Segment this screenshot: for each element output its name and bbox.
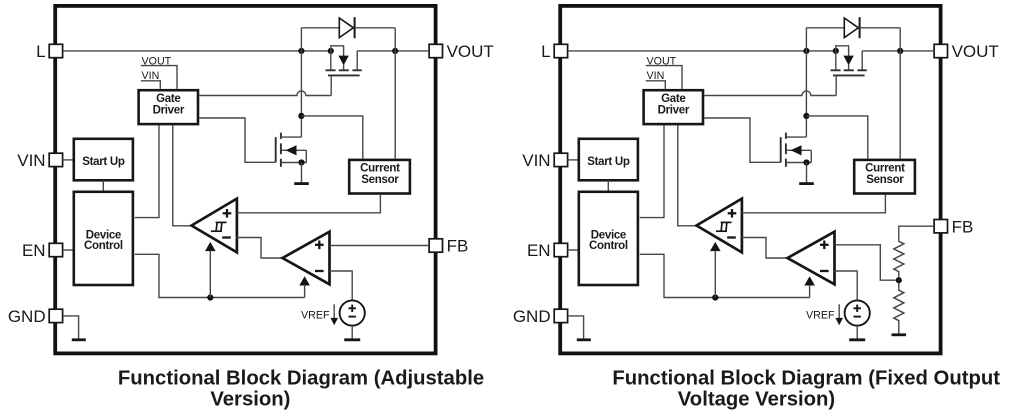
- transistor Q1 channel contacts: [831, 69, 841, 71]
- transistor Q1 gate plate: [833, 74, 865, 76]
- wire EN pin to device control: [63, 249, 73, 251]
- pin L: [554, 44, 567, 57]
- ground Q2 source: [301, 163, 303, 184]
- wire device control to gate driver: [640, 125, 664, 217]
- wire GND pin: [63, 316, 79, 339]
- transistor Q2 body lead: [282, 149, 307, 151]
- wire device control bias line: [640, 254, 810, 297]
- wire current sensor to U2 plus: [237, 195, 381, 213]
- svg-text:Gate: Gate: [661, 93, 685, 105]
- ground divider: [898, 323, 900, 335]
- ground GND pin: [577, 338, 591, 341]
- outer box (right diagram): [560, 6, 940, 354]
- diode D1: [339, 18, 353, 38]
- svg-text:VIN: VIN: [142, 70, 160, 82]
- pin VOUT: [934, 44, 947, 57]
- transistor Q1 body lead: [331, 46, 344, 56]
- arrow bias into U3: [804, 276, 815, 285]
- svg-text:EN: EN: [22, 241, 46, 260]
- svg-text:Gate: Gate: [156, 93, 180, 105]
- wire diode anode: [301, 27, 339, 29]
- svg-text:VIN: VIN: [522, 151, 550, 170]
- wire diode cathode: [860, 27, 901, 29]
- svg-text:FB: FB: [952, 217, 974, 236]
- wire U3 minus to VREF: [330, 271, 353, 300]
- U2 minus sign: [727, 236, 736, 238]
- svg-text:Functional Block Diagram (Adju: Functional Block Diagram (Adjustable: [118, 368, 484, 390]
- resistor R1: [894, 239, 904, 273]
- transistor Q1 gate lead: [330, 75, 332, 95]
- wire device control to gate driver: [135, 125, 159, 217]
- block Device Control: [579, 192, 638, 285]
- wire diode anode: [806, 27, 844, 29]
- wire diode branch left: [300, 28, 302, 51]
- transistor Q1 source leg: [835, 51, 837, 70]
- U3 minus sign: [315, 270, 324, 272]
- svg-text:Version): Version): [210, 388, 290, 410]
- svg-text:Sensor: Sensor: [361, 174, 399, 186]
- arrow bias into U3: [299, 276, 310, 285]
- wire FB pin to divider: [899, 226, 934, 239]
- pin VIN: [554, 153, 567, 166]
- svg-text:VREF: VREF: [806, 309, 835, 321]
- wire VOUT node to current sensor: [899, 51, 901, 159]
- arrow VREF direction: [838, 304, 840, 319]
- svg-text:Current: Current: [865, 163, 905, 175]
- wire diode branch right: [394, 28, 396, 51]
- pin EN: [554, 243, 567, 256]
- U3 minus sign: [820, 270, 829, 272]
- wire R1 to R2: [898, 274, 900, 289]
- wire comparator to gate driver: [678, 125, 697, 225]
- pin L: [49, 44, 62, 57]
- node diode left: [298, 48, 304, 54]
- node bias branch: [712, 294, 718, 300]
- U2 plus sign: [728, 212, 737, 214]
- transistor Q2 body lead: [787, 149, 812, 151]
- transistor Q1 drain leg: [356, 51, 358, 70]
- node VOUT branch: [897, 48, 903, 54]
- wire start up to device control: [607, 180, 609, 192]
- U2 hysteresis symbol: [211, 230, 222, 232]
- svg-text:Driver: Driver: [153, 104, 185, 116]
- U2 minus sign: [222, 236, 231, 238]
- block Start Up: [74, 139, 133, 181]
- pin GND: [49, 309, 62, 322]
- wire diode branch right: [899, 28, 901, 51]
- U3 plus sign: [820, 244, 829, 246]
- svg-text:Sensor: Sensor: [866, 174, 904, 186]
- pin GND: [554, 309, 567, 322]
- wire current sensor to U2 plus: [742, 195, 886, 213]
- transistor Q2 source lead: [281, 162, 306, 164]
- node diode left: [803, 48, 809, 54]
- wire VOUT input: [141, 66, 177, 89]
- block Current Sensor: [349, 160, 410, 194]
- wire VIN pin to start up: [568, 159, 578, 161]
- diode D1: [844, 18, 858, 38]
- op-amp U3 (error comparator): [283, 232, 330, 285]
- wire VOUT input: [646, 66, 682, 89]
- wire U3 plus to FB pin: [330, 245, 430, 247]
- block Device Control: [74, 192, 133, 285]
- transistor Q1 gate lead: [835, 75, 837, 95]
- op-amp U3 (error comparator): [788, 232, 835, 285]
- transistor Q1 body arrow: [843, 56, 853, 66]
- node Q2 source: [803, 159, 809, 165]
- svg-text:GND: GND: [8, 307, 46, 326]
- svg-text:Control: Control: [84, 240, 123, 252]
- wire Q1 to VOUT: [862, 50, 934, 52]
- block Gate Driver: [139, 90, 198, 124]
- wire tap to current sensor: [301, 116, 362, 159]
- transistor Q2 source lead: [786, 162, 811, 164]
- op-amp U2 (hysteresis comparator): [192, 199, 237, 253]
- node current sensor tap: [298, 113, 304, 119]
- block Current Sensor: [854, 160, 915, 194]
- wire diode branch left: [805, 28, 807, 51]
- ground VREF: [351, 326, 353, 340]
- svg-text:Functional Block Diagram (Fixe: Functional Block Diagram (Fixed Output: [612, 368, 1000, 390]
- svg-text:VIN: VIN: [17, 151, 45, 170]
- ground GND pin: [72, 338, 86, 341]
- svg-text:Start Up: Start Up: [82, 156, 125, 168]
- block Gate Driver: [644, 90, 703, 124]
- wire U2 minus to U3 output: [237, 238, 283, 259]
- svg-text:VOUT: VOUT: [447, 42, 494, 61]
- svg-text:GND: GND: [513, 307, 551, 326]
- svg-text:Voltage Version): Voltage Version): [678, 388, 835, 410]
- ground VREF: [856, 326, 858, 340]
- wire VOUT node to current sensor: [394, 51, 396, 159]
- svg-text:VIN: VIN: [647, 70, 665, 82]
- transistor Q1 body arrow: [338, 56, 348, 66]
- node current sensor tap: [803, 113, 809, 119]
- pin VIN: [49, 153, 62, 166]
- transistor Q2 body arrow: [286, 145, 297, 155]
- wire diode cathode: [355, 27, 396, 29]
- op-amp U2 (hysteresis comparator): [697, 199, 742, 253]
- transistor Q1 source leg: [330, 51, 332, 70]
- transistor Q2 body arrow: [791, 145, 802, 155]
- ground Q2 source: [806, 163, 808, 184]
- resistor R2: [894, 288, 904, 322]
- transistor Q2 channel: [280, 133, 282, 139]
- wire EN pin to device control: [568, 249, 578, 251]
- svg-text:Current: Current: [360, 163, 400, 175]
- wire U3 plus to divider tap: [835, 245, 899, 280]
- outer box (left diagram): [55, 6, 435, 354]
- svg-text:L: L: [541, 42, 550, 61]
- wire L to Q1: [63, 50, 331, 52]
- wire Q1 to VOUT: [357, 50, 429, 52]
- wire VIN pin to start up: [63, 159, 73, 161]
- svg-text:L: L: [36, 42, 45, 61]
- U2 plus sign: [223, 212, 232, 214]
- wire GND pin: [568, 316, 584, 339]
- node divider tap: [896, 277, 902, 283]
- pin EN: [49, 243, 62, 256]
- U2 hysteresis symbol: [716, 230, 727, 232]
- svg-text:FB: FB: [447, 237, 469, 256]
- svg-text:Control: Control: [589, 240, 628, 252]
- wire U3 minus to VREF: [835, 271, 858, 300]
- node VOUT branch: [392, 48, 398, 54]
- wire comparator to gate driver: [173, 125, 192, 225]
- voltage source VREF: [845, 300, 870, 325]
- arrow bias into U2: [205, 242, 216, 251]
- wire device control bias line: [135, 254, 305, 297]
- wire tap to current sensor: [806, 116, 867, 159]
- svg-text:VREF: VREF: [301, 309, 330, 321]
- transistor Q1 body lead: [836, 46, 849, 56]
- transistor Q1 drain leg: [861, 51, 863, 70]
- transistor Q2 drain lead: [281, 136, 302, 138]
- wire gate driver to Q2 gate: [199, 118, 275, 162]
- wire gate driver to Q1 gate (hop over vertical): [704, 91, 836, 95]
- arrow bias into U2: [710, 242, 721, 251]
- arrow VREF direction: [333, 304, 335, 319]
- wire node to NMOS drain: [805, 51, 807, 137]
- svg-text:Start Up: Start Up: [587, 156, 630, 168]
- transistor Q2 drain lead: [786, 136, 807, 138]
- wire VIN input: [141, 81, 161, 89]
- svg-text:Driver: Driver: [658, 104, 690, 116]
- voltage source VREF: [340, 300, 365, 325]
- node Q1 source: [328, 48, 334, 54]
- pin FB: [934, 220, 947, 233]
- wire node to NMOS drain: [300, 51, 302, 137]
- pin FB: [429, 239, 442, 252]
- wire VIN input: [646, 81, 666, 89]
- node Q2 source: [298, 159, 304, 165]
- block Start Up: [579, 139, 638, 181]
- wire gate driver to Q1 gate (hop over vertical): [199, 91, 331, 95]
- wire L to Q1: [568, 50, 836, 52]
- wire gate driver to Q2 gate: [704, 118, 780, 162]
- pin VOUT: [429, 44, 442, 57]
- transistor Q1 channel contacts: [326, 69, 336, 71]
- transistor Q1 gate plate: [328, 74, 360, 76]
- wire U2 minus to U3 output: [742, 238, 788, 259]
- wire start up to device control: [102, 180, 104, 192]
- transistor Q2 gate plate: [780, 137, 782, 162]
- transistor Q2 channel: [785, 133, 787, 139]
- svg-text:VOUT: VOUT: [952, 42, 999, 61]
- transistor Q2 gate plate: [275, 137, 277, 162]
- node Q1 source: [833, 48, 839, 54]
- svg-text:EN: EN: [527, 241, 551, 260]
- U3 plus sign: [315, 244, 324, 246]
- node bias branch: [207, 294, 213, 300]
